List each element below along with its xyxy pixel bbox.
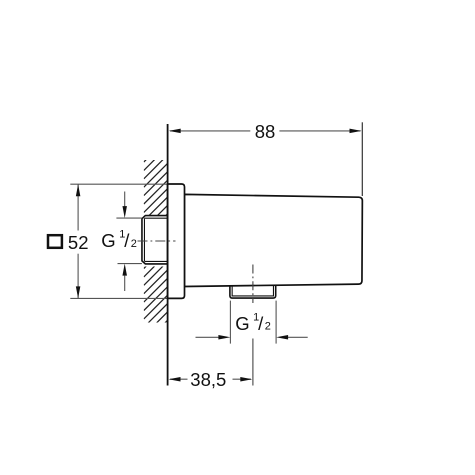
G1/2 left arrow up: [124, 276, 126, 291]
G1/2 left arrow down: [124, 192, 126, 208]
dim 52 line top segment: [77, 184, 79, 230]
G1/2 left extension top: [116, 217, 141, 219]
svg-text:38,5: 38,5: [190, 369, 226, 390]
svg-text:/: /: [124, 230, 130, 251]
dim 88 line left segment: [170, 130, 250, 132]
G1/2 bottom arrow left: [287, 336, 308, 338]
svg-text:2: 2: [131, 238, 137, 250]
thread centerline: [138, 240, 176, 242]
body: [184, 194, 362, 286]
dim 52 arrow up: [76, 184, 81, 196]
outlet centerline extension: [252, 339, 254, 386]
square symbol: [48, 235, 62, 248]
dim 88 line right segment: [279, 130, 360, 132]
svg-text:52: 52: [68, 232, 89, 253]
outlet extension line right: [275, 301, 277, 344]
flange: [168, 184, 185, 298]
G1/2 bottom arrow right: [196, 336, 220, 338]
svg-text:/: /: [258, 313, 264, 334]
svg-text:G: G: [235, 313, 249, 334]
dim 52 line bottom segment: [77, 254, 79, 299]
wall hatching lower: [144, 245, 168, 353]
dim 88 arrow right: [350, 129, 362, 134]
dim 38,5 arrow right: [240, 377, 252, 382]
extension line 52 top: [70, 183, 167, 185]
G1/2 bottom text: [235, 311, 271, 334]
svg-text:G: G: [101, 230, 115, 251]
wall section line: [167, 124, 169, 386]
svg-text:2: 2: [265, 321, 271, 333]
G1/2 left text: [101, 229, 137, 252]
dim 38,5 arrow left: [169, 377, 181, 382]
G1/2 left extension bottom: [118, 263, 142, 265]
dim 88 extension line right: [361, 122, 363, 196]
dim 52 arrow down: [76, 286, 81, 298]
outlet extension line left: [229, 301, 231, 344]
dim 38,5 line left: [170, 378, 188, 380]
svg-text:88: 88: [255, 121, 276, 142]
outlet centerline: [252, 265, 254, 304]
wall hatching upper: [144, 138, 168, 237]
dim 88 arrow left: [169, 129, 181, 134]
extension line 52 bottom: [70, 297, 167, 299]
outlet nipple: [230, 286, 276, 299]
dim 38,5 line right: [233, 378, 252, 380]
G1/2 thread stub: [142, 216, 168, 264]
